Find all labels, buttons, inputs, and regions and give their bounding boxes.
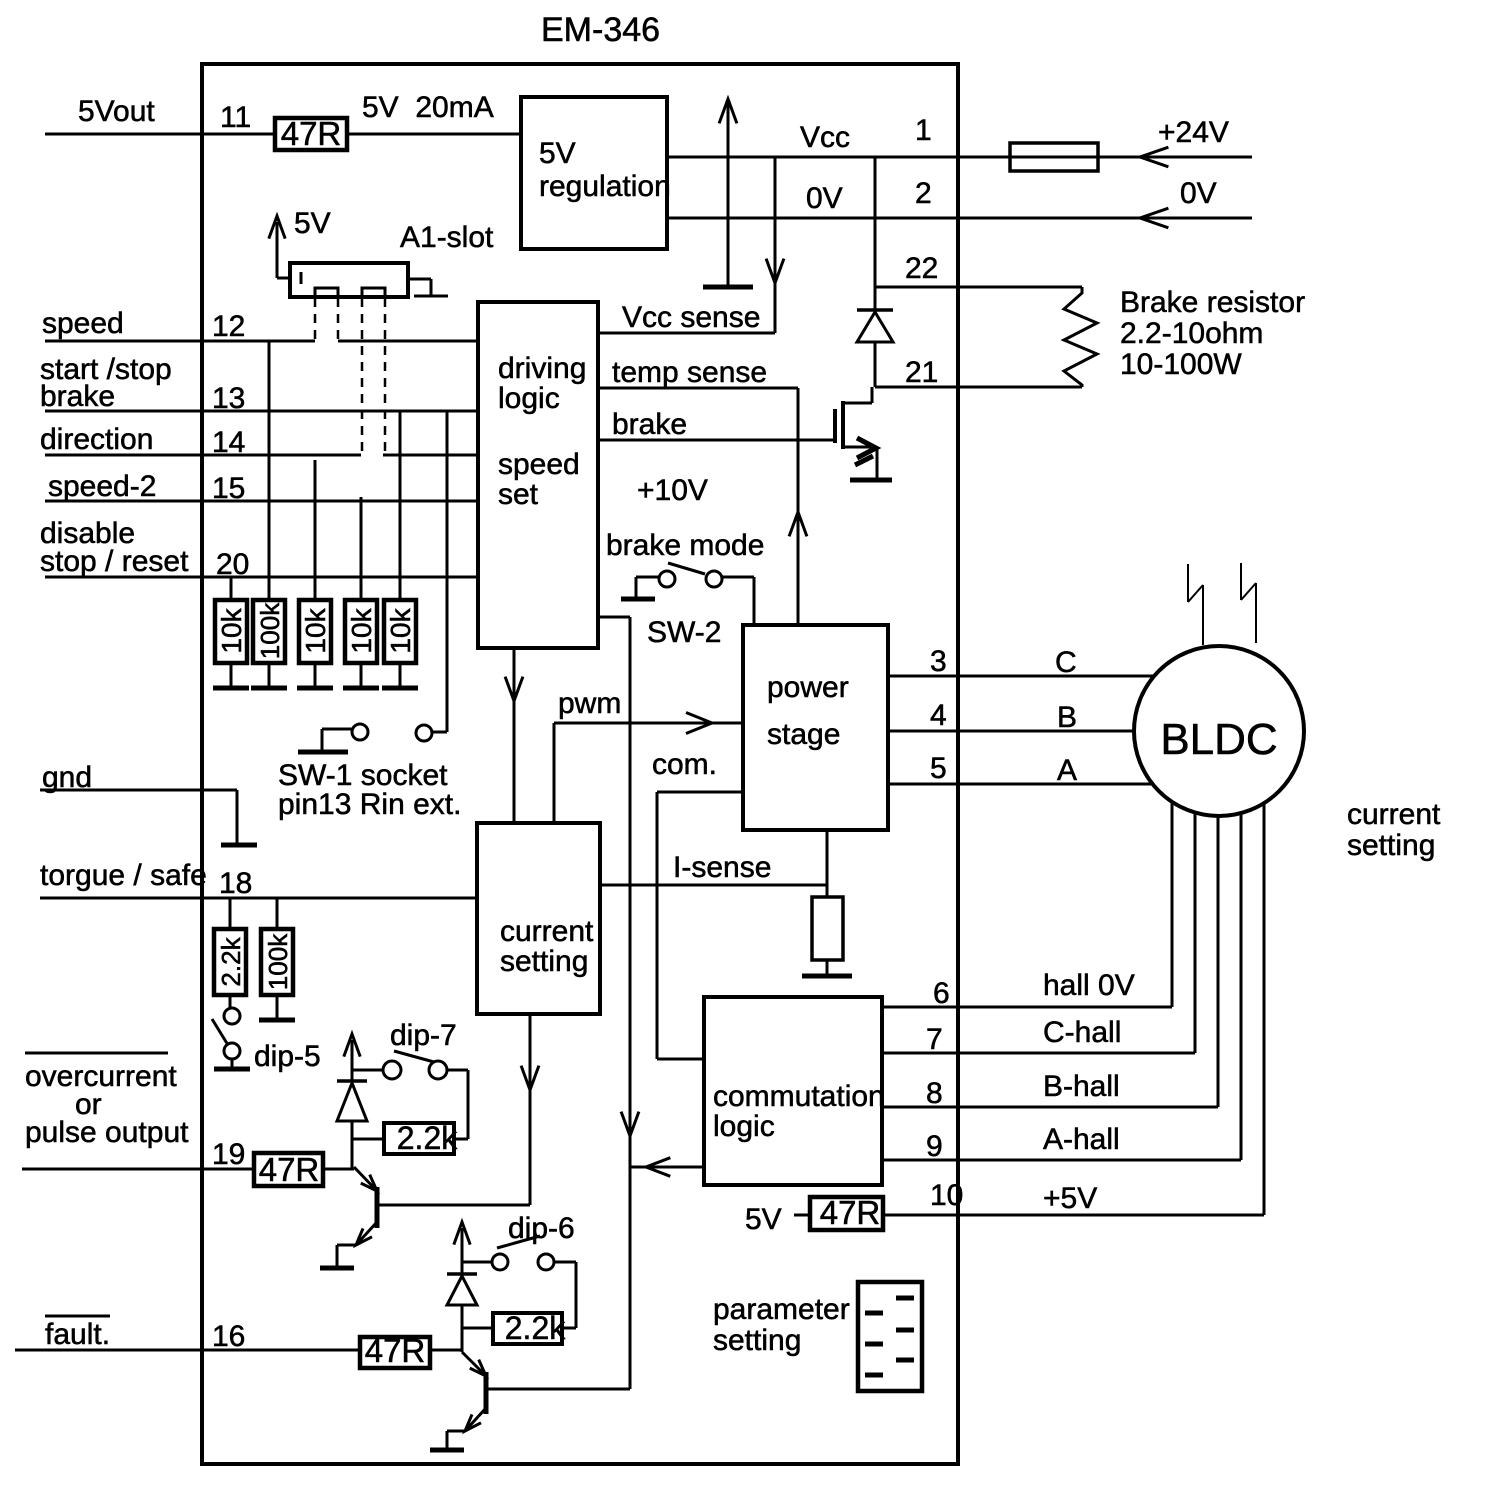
svg-text:stop / reset: stop / reset: [40, 545, 189, 578]
svg-text:47R: 47R: [365, 1332, 426, 1369]
svg-text:47R: 47R: [820, 1194, 881, 1231]
svg-text:2: 2: [915, 177, 932, 210]
svg-text:C: C: [1055, 646, 1077, 679]
svg-text:16: 16: [212, 1320, 245, 1353]
svg-text:0V: 0V: [806, 182, 843, 215]
svg-text:+10V: +10V: [637, 474, 708, 507]
svg-text:21: 21: [905, 356, 938, 389]
svg-text:12: 12: [212, 310, 245, 343]
svg-text:10-100W: 10-100W: [1120, 348, 1242, 381]
svg-text:47R: 47R: [281, 115, 342, 152]
svg-text:5V: 5V: [539, 137, 576, 170]
svg-text:dip-5: dip-5: [254, 1040, 321, 1073]
svg-text:C-hall: C-hall: [1043, 1016, 1121, 1049]
svg-text:brake: brake: [40, 380, 115, 413]
svg-text:set: set: [498, 478, 539, 511]
svg-text:10k: 10k: [385, 607, 416, 653]
svg-text:2.2k: 2.2k: [505, 1310, 566, 1346]
svg-text:I-sense: I-sense: [673, 851, 771, 884]
svg-text:Vcc: Vcc: [800, 121, 850, 154]
svg-text:8: 8: [926, 1077, 943, 1110]
svg-text:14: 14: [212, 426, 245, 459]
svg-text:10k: 10k: [216, 607, 247, 653]
svg-text:100k: 100k: [263, 933, 293, 990]
svg-text:Brake resistor: Brake resistor: [1120, 286, 1305, 319]
svg-text:0V: 0V: [1180, 177, 1217, 210]
svg-text:5V: 5V: [294, 207, 331, 240]
svg-text:setting: setting: [1347, 829, 1435, 862]
svg-text:15: 15: [212, 472, 245, 505]
svg-text:1: 1: [915, 114, 932, 147]
svg-text:4: 4: [930, 699, 947, 732]
svg-text:pwm: pwm: [558, 687, 621, 720]
svg-text:2.2k: 2.2k: [216, 936, 246, 986]
svg-text:+24V: +24V: [1158, 116, 1229, 149]
svg-text:BLDC: BLDC: [1160, 715, 1277, 764]
svg-text:11: 11: [220, 101, 251, 134]
svg-text:brake: brake: [612, 408, 687, 441]
svg-text:7: 7: [926, 1023, 943, 1056]
svg-text:current: current: [1347, 798, 1441, 831]
svg-text:speed: speed: [42, 307, 124, 340]
svg-text:regulation: regulation: [539, 170, 671, 203]
svg-text:setting: setting: [713, 1324, 801, 1357]
svg-text:10: 10: [930, 1179, 963, 1212]
svg-text:driving: driving: [498, 352, 586, 385]
svg-text:brake mode: brake mode: [606, 529, 764, 562]
svg-text:power: power: [767, 671, 849, 704]
svg-text:fault.: fault.: [45, 1318, 110, 1351]
svg-text:10k: 10k: [346, 607, 377, 653]
svg-text:pulse output: pulse output: [25, 1116, 189, 1149]
svg-text:gnd: gnd: [42, 761, 92, 794]
svg-text:B: B: [1057, 701, 1077, 734]
svg-text:stage: stage: [767, 718, 840, 751]
svg-text:2.2-10ohm: 2.2-10ohm: [1120, 317, 1263, 350]
svg-text:EM-346: EM-346: [541, 11, 660, 49]
svg-text:speed-2: speed-2: [48, 470, 156, 503]
svg-text:current: current: [500, 915, 594, 948]
svg-text:Vcc sense: Vcc sense: [622, 301, 760, 334]
svg-text:100k: 100k: [255, 602, 285, 659]
svg-text:speed: speed: [498, 448, 580, 481]
svg-text:5V 20mA: 5V 20mA: [362, 91, 494, 124]
svg-text:hall 0V: hall 0V: [1043, 969, 1135, 1002]
svg-text:dip-7: dip-7: [390, 1019, 457, 1052]
svg-text:47R: 47R: [259, 1151, 320, 1188]
svg-text:5V: 5V: [745, 1203, 782, 1236]
svg-text:A1-slot: A1-slot: [400, 221, 494, 254]
svg-text:A: A: [1057, 754, 1077, 787]
svg-text:3: 3: [930, 645, 947, 678]
svg-text:logic: logic: [498, 382, 560, 415]
svg-text:18: 18: [219, 867, 252, 900]
svg-text:logic: logic: [713, 1110, 775, 1143]
svg-text:13: 13: [212, 382, 245, 415]
svg-text:torgue / safe: torgue / safe: [40, 859, 207, 892]
svg-text:SW-2: SW-2: [647, 616, 721, 649]
svg-text:dip-6: dip-6: [508, 1212, 575, 1245]
svg-text:direction: direction: [40, 423, 153, 456]
svg-text:22: 22: [905, 252, 938, 285]
svg-text:5: 5: [930, 752, 947, 785]
svg-text:9: 9: [926, 1130, 943, 1163]
svg-text:2.2k: 2.2k: [397, 1120, 458, 1156]
svg-text:com.: com.: [652, 748, 717, 781]
svg-text:temp sense: temp sense: [612, 356, 767, 389]
svg-text:commutation: commutation: [713, 1080, 885, 1113]
svg-text:pin13 Rin ext.: pin13 Rin ext.: [278, 788, 461, 821]
svg-text:B-hall: B-hall: [1043, 1070, 1120, 1103]
svg-text:19: 19: [212, 1138, 245, 1171]
svg-text:5Vout: 5Vout: [78, 95, 155, 128]
svg-text:+5V: +5V: [1043, 1182, 1097, 1215]
svg-text:10k: 10k: [300, 607, 331, 653]
svg-text:A-hall: A-hall: [1043, 1123, 1120, 1156]
svg-text:6: 6: [933, 977, 950, 1010]
svg-text:20: 20: [216, 548, 249, 581]
svg-text:parameter: parameter: [713, 1293, 850, 1326]
svg-text:setting: setting: [500, 945, 588, 978]
